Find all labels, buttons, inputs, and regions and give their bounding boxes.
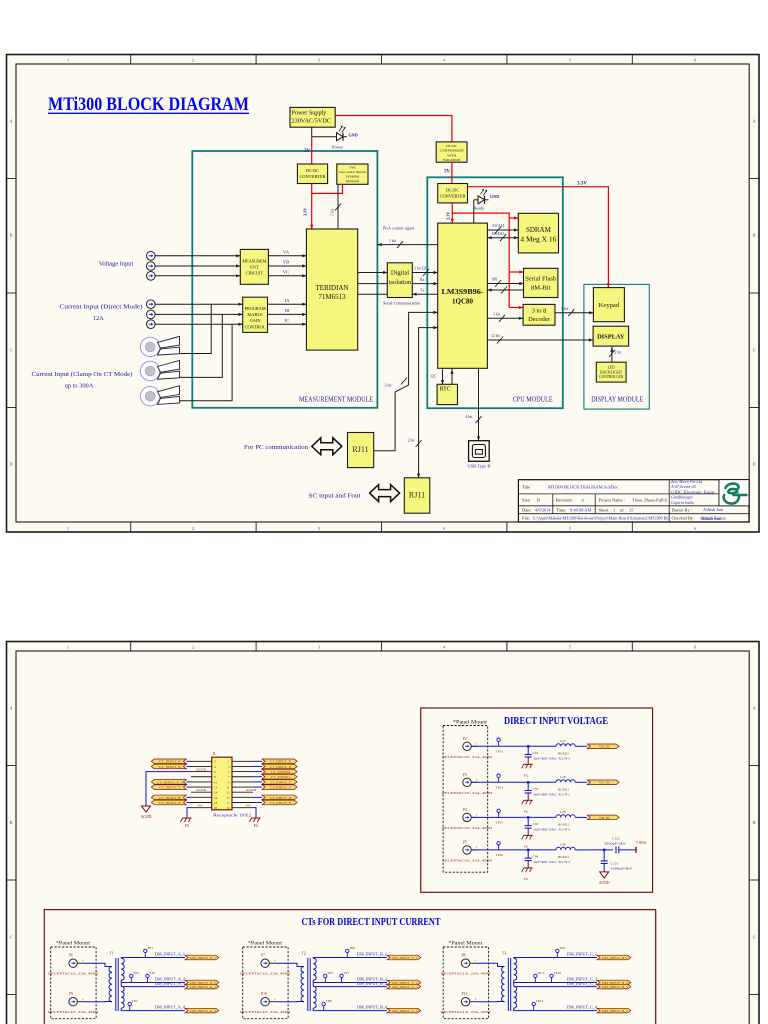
svg-text:AGND: AGND	[196, 768, 207, 772]
svg-text:B: B	[753, 820, 756, 825]
svg-text:CONTROL: CONTROL	[245, 324, 266, 329]
svg-text:DM_INPUT_A_4: DM_INPUT_A_4	[155, 1005, 185, 1009]
svg-text:DM_INPUT_A_2: DM_INPUT_A_2	[155, 978, 185, 982]
svg-text:File:: File:	[522, 516, 530, 521]
svg-text:DC-DC: DC-DC	[446, 144, 457, 148]
svg-text:two-wire Serial: two-wire Serial	[339, 170, 366, 174]
svg-text:L40: L40	[560, 842, 566, 846]
svg-text:DISPLAY: DISPLAY	[597, 334, 625, 341]
svg-text:FG: FG	[524, 809, 529, 813]
svg-text:Title: Title	[522, 485, 530, 490]
svg-text:A: A	[753, 706, 756, 711]
svg-text:Current Input (Direct Mode): Current Input (Direct Mode)	[60, 304, 143, 311]
svg-text:2 bit: 2 bit	[408, 439, 416, 443]
svg-text:DM_INPUT_V_3: DM_INPUT_V_3	[392, 985, 418, 989]
svg-text:1uF/300 VAC X1/Y1: 1uF/300 VAC X1/Y1	[533, 756, 570, 760]
svg-text:CT_INPUT_B: CT_INPUT_B	[270, 801, 292, 805]
svg-text:Size:: Size:	[522, 498, 531, 503]
svg-text:PROGRAM: PROGRAM	[245, 306, 266, 311]
svg-text:RJ11: RJ11	[409, 491, 425, 500]
svg-text:1: 1	[67, 526, 69, 531]
svg-text:DM_INPUT_B_4: DM_INPUT_B_4	[602, 1009, 628, 1013]
svg-text:Current Input (Clamp On CT Mod: Current Input (Clamp On CT Mode)	[32, 371, 133, 378]
svg-text:L27: L27	[560, 739, 566, 743]
svg-text:LED: LED	[608, 366, 615, 370]
svg-text:DISPLAY MODULE: DISPLAY MODULE	[591, 395, 643, 404]
svg-text:2 bit I2C: 2 bit I2C	[414, 266, 428, 270]
svg-text:CPU MODULE: CPU MODULE	[513, 395, 553, 404]
svg-text:TP15: TP15	[496, 821, 504, 825]
svg-text:C: C	[10, 348, 13, 353]
svg-text:5V: 5V	[304, 149, 310, 154]
svg-text:P9: P9	[69, 992, 73, 996]
svg-text:TWI: TWI	[349, 166, 355, 170]
svg-text:1000pF/3kV: 1000pF/3kV	[604, 841, 627, 845]
svg-text:LM3S9B96-: LM3S9B96-	[442, 288, 485, 296]
svg-text:IC: IC	[285, 318, 290, 323]
svg-text:5: 5	[569, 526, 571, 531]
svg-text:Revision:: Revision:	[556, 498, 573, 503]
svg-text:2: 2	[192, 526, 194, 531]
svg-text:Keypad: Keypad	[599, 302, 620, 309]
svg-text:CT_INPUT_R: CT_INPUT_R	[159, 760, 181, 764]
svg-text:CT_INPUT_R: CT_INPUT_R	[270, 765, 292, 769]
svg-text:6: 6	[694, 58, 696, 63]
svg-text:GAIN: GAIN	[250, 318, 262, 323]
svg-text:CT_INPUT_R: CT_INPUT_R	[270, 760, 292, 764]
svg-text:1uF/300 VAC X1/Y1: 1uF/300 VAC X1/Y1	[533, 827, 570, 831]
svg-text:Ashish Jain: Ashish Jain	[703, 507, 724, 512]
svg-text:CT_SENSE0: CT_SENSE0	[271, 770, 291, 774]
svg-text:Power Supply: Power Supply	[292, 110, 328, 117]
svg-text:C: C	[753, 348, 756, 353]
svg-text:P5: P5	[463, 840, 467, 844]
svg-text:of: of	[620, 507, 624, 512]
svg-text:TP10: TP10	[554, 971, 562, 975]
svg-text:B: B	[753, 233, 756, 238]
svg-text:WITH: WITH	[447, 153, 456, 157]
svg-text:Date:: Date:	[522, 507, 532, 512]
svg-text:FG: FG	[246, 804, 251, 808]
svg-text:BLM21: BLM21	[558, 855, 569, 859]
svg-text:TP12: TP12	[536, 999, 544, 1003]
svg-text:T3: T3	[502, 952, 506, 956]
svg-text:2 bit: 2 bit	[615, 351, 623, 355]
svg-text:3 to 8: 3 to 8	[532, 308, 547, 315]
svg-text:20: 20	[214, 806, 218, 810]
svg-text:TP6: TP6	[349, 946, 355, 950]
svg-text:Power: Power	[332, 145, 343, 150]
svg-text:Project Name :: Project Name :	[599, 498, 625, 503]
svg-text:DM_INPUT_C_3: DM_INPUT_C_3	[567, 982, 597, 986]
svg-text:DC-DC: DC-DC	[306, 168, 319, 173]
svg-text:1uF/300 VAC X1/Y1: 1uF/300 VAC X1/Y1	[533, 860, 570, 864]
svg-text:Time:: Time:	[556, 507, 566, 512]
svg-text:Checked By :: Checked By :	[672, 516, 696, 521]
svg-text:Decoder: Decoder	[528, 316, 551, 323]
svg-text:BACKLIGHT: BACKLIGHT	[600, 370, 623, 374]
svg-text:J1: J1	[212, 752, 215, 756]
svg-text:Sheet: Sheet	[599, 507, 610, 512]
svg-text:RJ11: RJ11	[352, 445, 368, 454]
svg-text:FG: FG	[524, 877, 529, 881]
svg-text:AGND: AGND	[246, 788, 257, 792]
svg-text:10: 10	[214, 780, 218, 784]
svg-text:FG: FG	[524, 844, 529, 848]
svg-text:B: B	[10, 233, 13, 238]
svg-text:DM_INPUT_C_1: DM_INPUT_C_1	[567, 952, 597, 956]
svg-text:Drawn By :: Drawn By :	[672, 507, 693, 512]
svg-text:3 bit: 3 bit	[493, 313, 501, 317]
svg-text:TP2: TP2	[150, 971, 156, 975]
svg-text:DIRECT INPUT VOLTAGE: DIRECT INPUT VOLTAGE	[504, 716, 608, 727]
svg-text:P3: P3	[463, 773, 467, 777]
svg-text:5V: 5V	[444, 170, 450, 175]
svg-text:3: 3	[318, 526, 320, 531]
svg-text:L29: L29	[560, 810, 566, 814]
svg-text:SC input and Fout: SC input and Fout	[309, 493, 361, 500]
svg-text:4/9/2014: 4/9/2014	[535, 507, 551, 512]
svg-text:B: B	[537, 498, 540, 503]
svg-text:Voltage Input: Voltage Input	[99, 260, 134, 267]
svg-text:14: 14	[214, 791, 218, 795]
svg-text:P11: P11	[462, 992, 468, 996]
svg-text:Ashish Jain: Ashish Jain	[701, 516, 722, 521]
svg-text:D0-D15: D0-D15	[492, 232, 505, 236]
svg-text:USB Type B: USB Type B	[467, 463, 490, 468]
svg-text:DC-DC: DC-DC	[446, 187, 459, 192]
svg-text:Digital: Digital	[391, 270, 409, 277]
svg-text:DM_INPUT_C_2: DM_INPUT_C_2	[567, 978, 597, 982]
svg-text:FG: FG	[198, 804, 203, 808]
svg-text:TP7: TP7	[344, 971, 350, 975]
svg-text:TP8: TP8	[326, 999, 332, 1003]
svg-text:TP9: TP9	[559, 946, 565, 950]
svg-text:C81: C81	[533, 751, 539, 755]
svg-text:5: 5	[569, 58, 571, 63]
svg-text:15: 15	[226, 796, 230, 800]
svg-text:MEASUREM: MEASUREM	[242, 258, 266, 263]
svg-text:TERIDIAN: TERIDIAN	[315, 284, 348, 292]
svg-text:SDRAM: SDRAM	[526, 226, 552, 234]
svg-text:TP13: TP13	[496, 750, 504, 754]
svg-text:CT_INPUT_Y: CT_INPUT_Y	[270, 780, 292, 784]
svg-text:4 bit: 4 bit	[466, 415, 474, 419]
svg-text:9:40:49 AM: 9:40:49 AM	[570, 507, 591, 512]
svg-text:MEASUREMENT MODULE: MEASUREMENT MODULE	[299, 395, 373, 404]
svg-text:16: 16	[214, 796, 218, 800]
svg-text:B: B	[10, 820, 13, 825]
svg-text:isolation: isolation	[389, 279, 412, 286]
svg-text:CT_INPUT_B: CT_INPUT_B	[159, 801, 181, 805]
svg-text:FG: FG	[185, 824, 190, 828]
svg-text:C123: C123	[611, 861, 619, 865]
svg-text:2 bit: 2 bit	[331, 208, 335, 216]
svg-text:DM_INPUT_B_3: DM_INPUT_B_3	[357, 982, 387, 986]
svg-text:AGND: AGND	[599, 881, 610, 885]
svg-text:12: 12	[214, 785, 218, 789]
svg-text:V1P3A: V1P3A	[636, 841, 647, 845]
svg-text:BLM21: BLM21	[558, 751, 569, 755]
svg-text:13: 13	[226, 791, 230, 795]
svg-text:17: 17	[226, 801, 230, 805]
svg-text:TP14: TP14	[496, 786, 504, 790]
svg-text:TP3: TP3	[133, 971, 139, 975]
svg-text:DM_INPUT_B_4: DM_INPUT_B_4	[357, 1005, 387, 1009]
svg-text:T2: T2	[301, 952, 305, 956]
svg-text:FG: FG	[254, 824, 259, 828]
svg-text:C: C	[753, 935, 756, 940]
svg-text:ENT: ENT	[250, 264, 259, 269]
svg-text:VB_IN: VB_IN	[599, 816, 610, 820]
svg-text:CT_INPUT_B: CT_INPUT_B	[270, 796, 292, 800]
svg-text:IA: IA	[285, 298, 291, 303]
svg-text:DM_INPUT_B_1: DM_INPUT_B_1	[357, 952, 387, 956]
svg-text:Receptacle 10X2: Receptacle 10X2	[213, 813, 251, 818]
svg-text:BLM21: BLM21	[558, 787, 569, 791]
svg-text:DM_INPUT_A_3: DM_INPUT_A_3	[155, 982, 185, 986]
svg-text:A: A	[753, 119, 756, 124]
svg-text:3.3V: 3.3V	[303, 208, 308, 216]
svg-text:BLM21: BLM21	[558, 822, 569, 826]
svg-text:12A: 12A	[93, 315, 104, 322]
svg-text:12 bit: 12 bit	[491, 334, 501, 338]
svg-text:CT_INPUT_R: CT_INPUT_R	[159, 765, 181, 769]
svg-text:AGND: AGND	[196, 788, 207, 792]
svg-text:TP4: TP4	[132, 999, 138, 1003]
svg-text:Rx: Rx	[420, 278, 425, 282]
svg-text:P2: P2	[463, 737, 467, 741]
svg-text:4 Meg X 16: 4 Meg X 16	[520, 236, 557, 244]
svg-text:DM_INPUT_R_4: DM_INPUT_R_4	[190, 1009, 216, 1013]
svg-text:P8: P8	[462, 954, 466, 958]
svg-text:IB: IB	[285, 308, 290, 313]
svg-text:RTC: RTC	[440, 387, 451, 393]
svg-text:1: 1	[67, 645, 69, 650]
svg-text:C82: C82	[533, 787, 539, 791]
svg-text:1 bit: 1 bit	[389, 239, 397, 243]
svg-text:MTi300 BLOCK DIAGRAM.SchDoc: MTi300 BLOCK DIAGRAM.SchDoc	[548, 485, 618, 490]
svg-text:A: A	[10, 119, 13, 124]
svg-text:3: 3	[318, 58, 320, 63]
svg-text:*Panel Mount: *Panel Mount	[453, 720, 488, 726]
svg-text:18: 18	[214, 801, 218, 805]
svg-text:AGND: AGND	[141, 815, 152, 819]
svg-text:MABLE: MABLE	[247, 312, 263, 317]
svg-text:DM_INPUT_A_1: DM_INPUT_A_1	[155, 952, 185, 956]
svg-text:1000pF/3kV: 1000pF/3kV	[611, 866, 634, 870]
svg-text:DM_INPUT_R_1: DM_INPUT_R_1	[190, 956, 216, 960]
svg-text:up to 300A: up to 300A	[65, 382, 94, 389]
svg-text:Serial Communication: Serial Communication	[383, 301, 421, 306]
svg-text:Tx: Tx	[420, 289, 424, 293]
svg-text:MTi300 BLOCK DIAGRAM: MTi300 BLOCK DIAGRAM	[48, 94, 249, 115]
svg-text:TP5: TP5	[327, 971, 333, 975]
svg-text:3.3V: 3.3V	[445, 212, 450, 220]
svg-text:A0-A11: A0-A11	[492, 224, 504, 228]
svg-text:For PC communication: For PC communication	[244, 444, 308, 451]
svg-text:P4: P4	[463, 808, 467, 812]
svg-text:VC: VC	[283, 269, 289, 274]
svg-text:*Panel Mount: *Panel Mount	[448, 941, 483, 947]
svg-text:TP16: TP16	[496, 853, 504, 857]
svg-text:1QC80: 1QC80	[452, 298, 474, 306]
svg-text:GND: GND	[349, 133, 358, 138]
svg-text:CT_INPUT_Y_2: CT_INPUT_Y_2	[157, 780, 183, 784]
svg-text:19: 19	[226, 806, 230, 810]
svg-text:TP1: TP1	[147, 946, 153, 950]
svg-text:VB: VB	[283, 260, 289, 265]
svg-text:71M6513: 71M6513	[318, 293, 346, 301]
svg-text:Serial Flash: Serial Flash	[525, 276, 557, 283]
svg-text:CONVERTER: CONVERTER	[440, 193, 466, 198]
svg-text:ISOLATION: ISOLATION	[443, 158, 461, 162]
svg-text:DM_INPUT_C_4: DM_INPUT_C_4	[567, 1005, 597, 1009]
svg-text:DM_INPUT_B_2: DM_INPUT_B_2	[357, 978, 387, 982]
svg-text:CIRCUIT: CIRCUIT	[246, 270, 264, 275]
svg-text:*Panel Mount: *Panel Mount	[248, 941, 283, 947]
svg-text:6: 6	[694, 526, 696, 531]
svg-text:VY_IN: VY_IN	[599, 781, 610, 785]
svg-text:3: 3	[318, 645, 320, 650]
svg-text:PGA control signal: PGA control signal	[383, 226, 415, 231]
svg-text:P10: P10	[261, 992, 267, 996]
svg-text:C: C	[10, 935, 13, 940]
svg-text:1: 1	[613, 507, 615, 512]
svg-text:2: 2	[192, 645, 194, 650]
svg-text:C83: C83	[533, 822, 539, 826]
svg-text:DM_INPUT_B_1: DM_INPUT_B_1	[602, 956, 628, 960]
svg-text:Gujarat India: Gujarat India	[671, 500, 694, 505]
svg-text:11: 11	[227, 785, 230, 789]
svg-text:DM_INPUT_R_3: DM_INPUT_R_3	[190, 985, 216, 989]
svg-text:D: D	[10, 462, 13, 467]
svg-text:DM_INPUT_B_3: DM_INPUT_B_3	[602, 985, 628, 989]
svg-text:8M-Bit: 8M-Bit	[531, 285, 551, 292]
svg-text:VA: VA	[283, 249, 290, 254]
svg-text:C122: C122	[612, 836, 620, 840]
svg-text:3.3V: 3.3V	[577, 181, 587, 186]
svg-text:VR_IN: VR_IN	[599, 745, 610, 749]
svg-text:L28: L28	[560, 775, 566, 779]
svg-text:DM_INPUT_V_4: DM_INPUT_V_4	[392, 1009, 418, 1013]
svg-text:1uF/300 VAC X1/Y1: 1uF/300 VAC X1/Y1	[533, 792, 570, 796]
svg-text:CT_INPUT_B: CT_INPUT_B	[159, 796, 181, 800]
svg-text:2 bit: 2 bit	[385, 384, 393, 388]
svg-text:CT_INPUT_Y: CT_INPUT_Y	[159, 785, 181, 789]
svg-text:I2C: I2C	[431, 375, 437, 379]
svg-text:T1: T1	[109, 952, 113, 956]
svg-text:Ready: Ready	[474, 206, 486, 211]
svg-text:TP11: TP11	[537, 971, 545, 975]
svg-text:CONTROLLER: CONTROLLER	[599, 375, 624, 379]
svg-text:C84: C84	[533, 854, 539, 858]
svg-text:P7: P7	[261, 954, 265, 958]
svg-text:2: 2	[192, 58, 194, 63]
svg-text:EEPROM: EEPROM	[346, 174, 359, 178]
svg-text:230VAC/5VDC: 230VAC/5VDC	[292, 118, 331, 125]
svg-text:Three_Phase-PqPcb: Three_Phase-PqPcb	[632, 498, 668, 503]
svg-text:DM_INPUT_V_1: DM_INPUT_V_1	[392, 956, 418, 960]
svg-text:GND: GND	[490, 194, 499, 199]
svg-text:*Panel Mount: *Panel Mount	[56, 941, 91, 947]
svg-text:3 bit: 3 bit	[561, 307, 569, 311]
svg-text:P6: P6	[69, 954, 73, 958]
svg-text:D: D	[753, 462, 756, 467]
svg-text:(Optional): (Optional)	[346, 179, 359, 183]
svg-text:A: A	[10, 706, 13, 711]
svg-text:5: 5	[569, 645, 571, 650]
svg-text:CT_INPUT_Y: CT_INPUT_Y	[270, 785, 292, 789]
svg-text:CONVERTER: CONVERTER	[300, 174, 326, 179]
svg-text:FG: FG	[524, 773, 529, 777]
svg-text:6: 6	[694, 645, 696, 650]
svg-text:E:\Ajain\Makala\MTi300\Hardwar: E:\Ajain\Makala\MTi300\Hardware\Project\…	[533, 516, 669, 521]
svg-text:1: 1	[67, 58, 69, 63]
svg-text:CT_SENSE1: CT_SENSE1	[271, 775, 291, 779]
svg-text:CTs FOR DIRECT INPUT CURRENT: CTs FOR DIRECT INPUT CURRENT	[302, 917, 441, 928]
svg-text:SPI: SPI	[492, 278, 498, 282]
svg-text:CONVERSION: CONVERSION	[440, 149, 465, 153]
